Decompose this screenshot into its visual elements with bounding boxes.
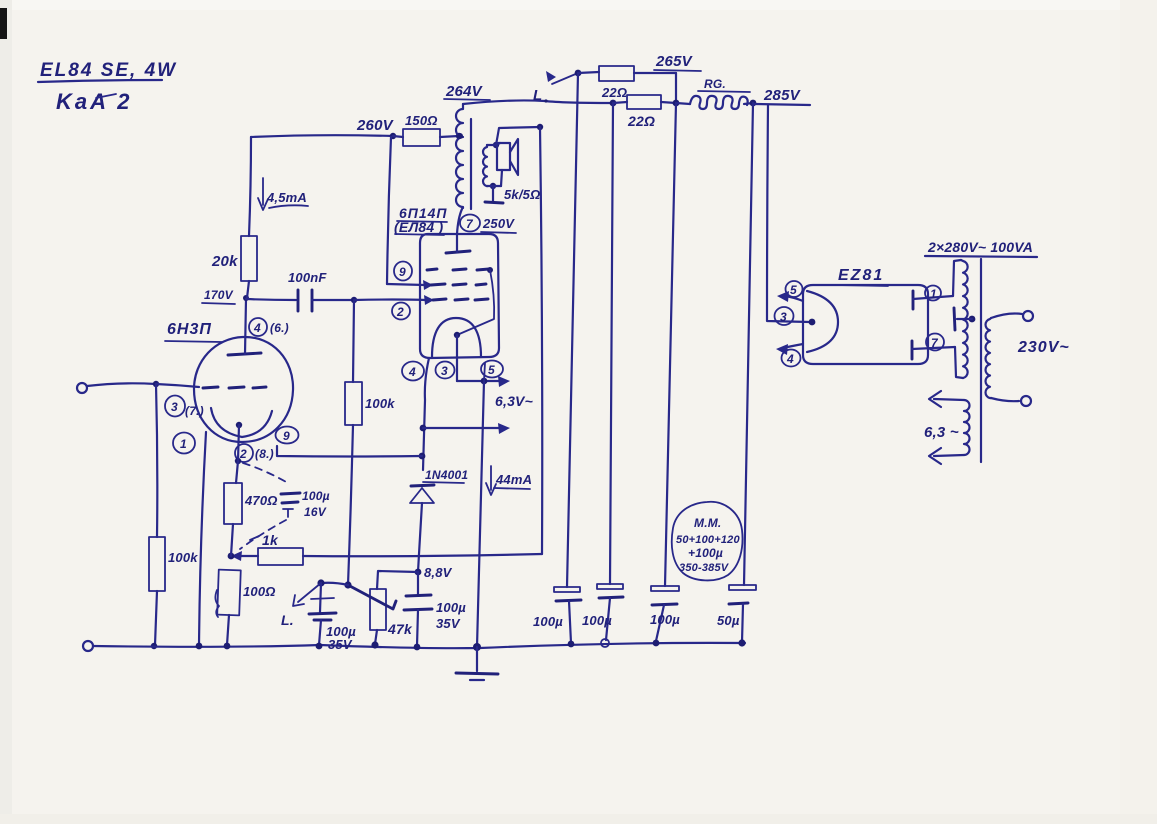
ground bus wire	[93, 643, 745, 648]
pin 4 label 6N3P	[249, 318, 289, 336]
label L top with arrow	[533, 71, 578, 104]
scanner black mark top-left	[0, 8, 7, 39]
capacitor 100nF	[288, 270, 327, 311]
svg-text:5: 5	[790, 283, 797, 297]
V2 cathode dot	[454, 332, 460, 338]
svg-text:(ЕЛ84 ): (ЕЛ84 )	[394, 219, 443, 235]
svg-text:47k: 47k	[387, 621, 413, 637]
node heater arrow2	[420, 425, 427, 432]
svg-text:6Н3П: 6Н3П	[167, 321, 212, 338]
transformer 6,3V winding	[964, 400, 970, 455]
svg-text:100µ: 100µ	[582, 613, 612, 628]
pin 7 label and 250V	[460, 215, 516, 234]
dashed link cathode to cap	[243, 463, 288, 483]
svg-text:7: 7	[466, 217, 474, 231]
svg-text:(6.): (6.)	[270, 321, 289, 335]
230V top lead and terminal	[991, 311, 1033, 321]
svg-text:260V: 260V	[356, 117, 395, 134]
svg-text:20k: 20k	[211, 253, 238, 270]
svg-text:264V: 264V	[445, 83, 484, 100]
resistor 100k (input)	[149, 537, 198, 591]
label 265V	[654, 53, 701, 71]
secondary top node	[493, 142, 499, 148]
label 2x280V 100VA	[925, 239, 1037, 257]
heater arrow 6,3V	[457, 376, 533, 409]
note blob M.M.	[672, 502, 743, 581]
label 285V	[755, 87, 810, 105]
secondary bottom node	[490, 183, 496, 189]
svg-text:EL84 SE, 4W: EL84 SE, 4W	[40, 60, 177, 81]
svg-text:EZ81: EZ81	[838, 267, 884, 284]
V2 cathode lead down	[456, 335, 458, 381]
svg-text:5: 5	[488, 363, 495, 377]
resistor 1k feedback	[231, 532, 303, 565]
svg-text:4: 4	[253, 321, 261, 335]
node 8,8V	[415, 569, 422, 576]
wire junction down to 100k	[156, 384, 157, 537]
title EL84 SE, 4W	[38, 60, 177, 114]
capacitor 100u/16V	[281, 489, 330, 519]
svg-text:2×280V~ 100VA: 2×280V~ 100VA	[927, 239, 1033, 255]
tube U1 6N3P envelope	[194, 337, 293, 442]
svg-text:250V: 250V	[482, 216, 515, 231]
rail 264V to right	[463, 100, 613, 104]
cap2 rail vertical	[610, 103, 613, 584]
HV center tap	[954, 308, 975, 330]
node 1k/cathode	[228, 553, 235, 560]
node heater pin5	[481, 378, 488, 385]
wire 100nF to grid node	[312, 299, 354, 301]
arrow 4,5mA	[258, 178, 308, 210]
node 100ohm bus	[224, 643, 231, 650]
transformer core	[980, 259, 982, 462]
capacitor 100u/35V (L)	[309, 583, 356, 652]
capacitor 100u/35V cathode	[404, 572, 466, 646]
svg-text:1: 1	[930, 287, 937, 301]
svg-text:1: 1	[180, 437, 187, 451]
resistor 20k	[211, 236, 257, 281]
V2 plate bar	[446, 251, 470, 253]
speaker LS1	[496, 139, 518, 186]
wire 285V to EZ81 cathode	[767, 105, 810, 322]
capacitor C2 100u	[582, 584, 623, 640]
arrowhead g1	[424, 295, 434, 305]
wire 20k bottom to node	[247, 281, 249, 298]
wire g1 into tube	[354, 298, 426, 301]
wire g2 supply vertical	[387, 137, 391, 284]
svg-text:35V: 35V	[436, 616, 461, 631]
capacitor C1 100u	[533, 587, 581, 643]
node C2 bus	[601, 639, 609, 647]
pin 9 label EL84	[394, 262, 412, 281]
svg-text:+100µ: +100µ	[688, 546, 723, 560]
grid dashed line 6N3P	[203, 387, 266, 388]
node C1 bus	[568, 641, 575, 648]
svg-text:4,5mA: 4,5mA	[266, 190, 307, 205]
svg-text:(7.): (7.)	[185, 404, 204, 418]
tube V2 EL84 envelope	[420, 234, 499, 358]
pin 9 label 6N3P	[276, 427, 299, 444]
node grid EL84	[351, 297, 357, 303]
svg-text:M.M.: M.M.	[694, 516, 721, 530]
pin 1 lead 6N3P	[199, 432, 206, 646]
svg-text:3: 3	[441, 364, 448, 378]
V2 g3 internal connection	[487, 267, 493, 273]
resistor 150ohm	[393, 113, 459, 146]
pin 3 label EZ81	[775, 307, 794, 325]
svg-text:100Ω: 100Ω	[243, 584, 276, 599]
svg-text:L.: L.	[281, 612, 294, 628]
node heater to 6N3P	[419, 453, 426, 460]
svg-text:5k/5Ω: 5k/5Ω	[504, 187, 540, 202]
svg-text:4: 4	[786, 352, 794, 366]
6N3P cathode dot	[236, 422, 242, 428]
pin 1 label EZ81	[925, 286, 941, 302]
node grid junction	[153, 381, 159, 387]
6N3P cathode arc	[211, 408, 272, 437]
svg-text:44mA: 44mA	[495, 472, 532, 487]
wire pot node to L node	[321, 583, 348, 585]
svg-text:22Ω: 22Ω	[601, 85, 627, 100]
wire diode to 8,8V node	[418, 503, 422, 572]
node bus/ground	[473, 643, 481, 651]
capacitor C4 50u	[717, 585, 756, 642]
V2 anode lead	[457, 209, 462, 252]
wire 265V down	[675, 73, 677, 103]
svg-text:6,3 ~: 6,3 ~	[924, 424, 959, 441]
node 22ohm-2 left	[610, 100, 617, 107]
U1 anode plate bar	[228, 353, 261, 355]
wire input to grid junction	[87, 383, 156, 386]
feedback wire from OT secondary	[303, 554, 542, 556]
svg-text:RG.: RG.	[704, 77, 726, 91]
OT secondary winding	[483, 145, 487, 186]
EZ81 cathode dot	[809, 319, 816, 326]
node pin1 bus	[196, 643, 203, 650]
pin 1 label	[173, 433, 195, 454]
pin5 stub	[484, 363, 485, 381]
svg-text:100µ: 100µ	[533, 614, 563, 629]
choke RG	[676, 77, 753, 109]
arrow to L	[281, 583, 334, 628]
svg-text:100nF: 100nF	[288, 270, 327, 285]
EZ81 heater arrow pin5	[777, 281, 803, 302]
wire 100k down to pot node	[348, 425, 353, 585]
svg-text:1N4001: 1N4001	[425, 468, 468, 482]
wire anode1 to HV winding top	[953, 260, 961, 296]
wire g2 into tube	[387, 284, 425, 285]
transformer 230V winding	[986, 318, 991, 398]
wire 8,8V to 47k top	[377, 571, 418, 589]
svg-text:100µ: 100µ	[650, 612, 680, 627]
node L tap	[317, 579, 324, 586]
label 264V	[444, 83, 490, 100]
svg-text:8,8V: 8,8V	[424, 565, 453, 580]
U1 anode lead	[245, 299, 246, 354]
dashed link cap to 1k node	[240, 520, 286, 549]
V2 grid dash rows	[427, 269, 489, 300]
diode 1N4001	[410, 468, 468, 503]
wire 260V rail horizontal	[251, 135, 393, 137]
node OT 150ohm tap	[457, 133, 463, 139]
EZ81 cathode arc	[807, 291, 838, 352]
input terminal bottom	[83, 641, 93, 651]
pin labels 4 3 5	[402, 362, 424, 381]
cap1 rail vertical	[567, 73, 578, 587]
svg-text:100k: 100k	[365, 396, 395, 411]
svg-text:1k: 1k	[262, 532, 279, 548]
node 285V	[750, 100, 757, 107]
svg-text:265V: 265V	[655, 53, 694, 70]
wire secondary to feedback corner	[496, 127, 540, 145]
node 170V	[243, 295, 249, 301]
resistor 470ohm	[224, 461, 278, 556]
wire anode2 to HV winding bottom	[955, 347, 963, 378]
cap3 rail vertical	[665, 103, 676, 586]
pin 2 label EL84	[392, 303, 410, 320]
pin 3 label 6N3P	[165, 396, 204, 419]
label EZ81	[836, 267, 888, 286]
transformer T1 HV winding	[961, 260, 968, 378]
svg-text:100µ: 100µ	[436, 600, 466, 615]
svg-text:22Ω: 22Ω	[627, 113, 655, 129]
ground symbol main	[456, 647, 498, 680]
tube V3 EZ81 envelope	[803, 285, 928, 364]
wire 100k to ground bus	[155, 591, 157, 645]
svg-text:35V: 35V	[328, 637, 353, 652]
svg-text:100µ: 100µ	[302, 489, 330, 503]
heater arrow 2	[423, 423, 510, 434]
svg-text:3: 3	[171, 400, 178, 414]
node OT tap	[456, 133, 462, 139]
node C4 bus end	[738, 639, 745, 646]
resistor 22ohm (top)	[578, 66, 676, 100]
pin 7 label EZ81	[926, 334, 944, 351]
node feedback corner	[537, 124, 543, 130]
svg-text:9: 9	[399, 265, 406, 279]
svg-text:16V: 16V	[304, 505, 327, 519]
svg-text:470Ω: 470Ω	[244, 493, 278, 508]
cap4 rail vertical	[744, 103, 753, 585]
OT core	[470, 119, 472, 209]
EZ81 anode 2	[912, 341, 955, 359]
wire junction to tube grid	[156, 384, 199, 387]
potentiometer 47k	[370, 589, 413, 644]
node cathode 6N3P	[235, 458, 241, 464]
wire 20k top to 260V rail corner	[249, 137, 251, 236]
pin 2 label 6N3P	[235, 444, 274, 462]
svg-text:L: L	[533, 87, 542, 104]
svg-text:9: 9	[283, 429, 290, 443]
node 265V junction	[673, 100, 680, 107]
6,3V top arrow	[929, 391, 964, 407]
svg-text:2: 2	[396, 305, 404, 319]
capacitor C3 100u	[650, 586, 680, 641]
svg-text:285V: 285V	[763, 87, 802, 104]
node 22ohm-1 left	[575, 70, 582, 77]
resistor 22ohm (lower)	[613, 95, 676, 129]
svg-text:170V: 170V	[204, 288, 234, 302]
OT primary winding	[456, 104, 463, 208]
node cap bus	[414, 644, 421, 651]
EZ81 heater arrow pin4	[776, 344, 803, 367]
label 6P14P (EL84)	[394, 205, 448, 235]
node capL bus	[316, 643, 323, 650]
svg-text:KaA 2: KaA 2	[56, 89, 133, 114]
ground OT secondary	[485, 187, 503, 203]
resistor 100k (grid EL84)	[345, 300, 395, 425]
svg-text:6,3V~: 6,3V~	[495, 393, 533, 409]
EZ81 anode 1	[913, 291, 953, 309]
node C3 bus	[653, 640, 660, 647]
svg-text:(8.): (8.)	[255, 447, 274, 461]
node 47k bus	[371, 641, 378, 648]
svg-text:50µ: 50µ	[717, 613, 740, 628]
wire pin5 down to ground	[477, 381, 484, 647]
pot wiper arrow 47k	[348, 585, 396, 609]
label 6N3P	[165, 321, 222, 342]
node pot top	[344, 581, 351, 588]
input terminal top	[77, 383, 87, 393]
svg-text:350-385V: 350-385V	[679, 562, 730, 574]
230V bottom lead and terminal	[991, 396, 1031, 406]
node 260V/150ohm	[390, 133, 396, 139]
arrowhead g2	[423, 280, 433, 290]
svg-text:3: 3	[780, 310, 787, 324]
resistor 100ohm	[215, 570, 275, 645]
wire pin4 heater line	[423, 358, 429, 470]
wire heater to 6N3P pin9	[277, 446, 422, 457]
svg-text:50+100+120: 50+100+120	[676, 534, 740, 546]
feedback vertical	[540, 127, 542, 554]
node bus/100k	[151, 643, 157, 649]
svg-text:4: 4	[408, 365, 416, 379]
6N3P cathode lead	[238, 425, 239, 461]
arrow 44mA	[486, 466, 532, 495]
V2 cathode dome	[432, 318, 481, 357]
label 170V	[202, 288, 235, 304]
svg-text:100k: 100k	[168, 550, 198, 565]
svg-text:7: 7	[931, 336, 939, 350]
svg-text:230V~: 230V~	[1017, 339, 1070, 356]
svg-text:150Ω: 150Ω	[405, 113, 438, 128]
wire node to 100nF	[246, 299, 296, 300]
6,3V bottom arrow	[929, 448, 964, 464]
